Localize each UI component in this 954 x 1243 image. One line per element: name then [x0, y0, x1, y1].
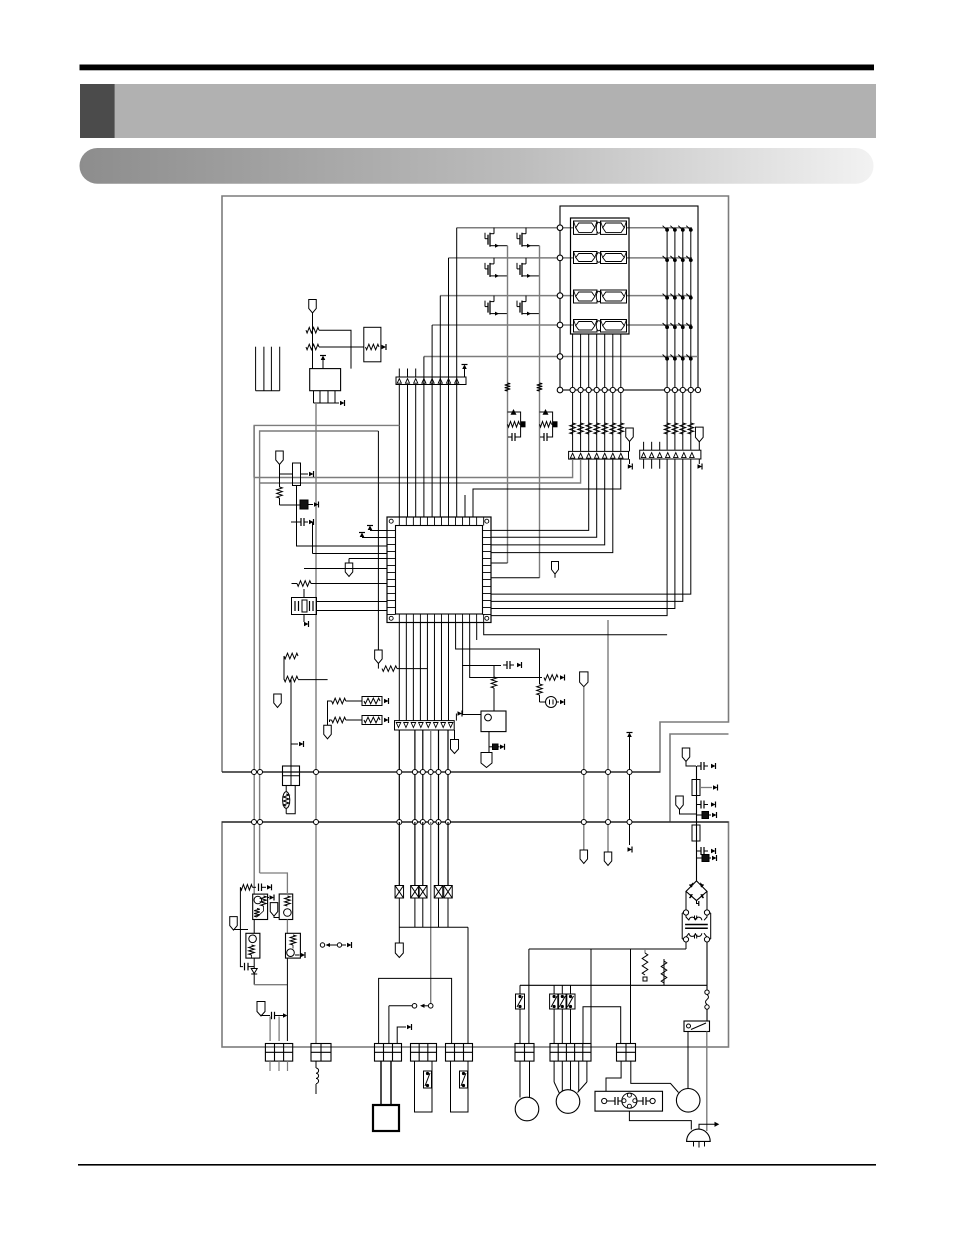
capacitor C-L1 — [252, 886, 256, 888]
label comb — [255, 347, 257, 391]
wire T1 left leg — [685, 942, 687, 949]
wires strip CN-M to MCU top — [398, 385, 400, 518]
page top rule — [80, 65, 875, 71]
resistor R-c1 — [284, 653, 298, 659]
key-matrix terminal circles — [665, 387, 670, 392]
flag node GND-b — [604, 852, 612, 866]
transistor Q4 — [516, 263, 518, 269]
drop bus3 to CN5 — [467, 927, 469, 1043]
terminal rc — [291, 743, 298, 745]
wire strip col2 wrap-left — [260, 459, 581, 483]
loop P2 — [583, 1007, 621, 1044]
IR module top terminal — [322, 360, 324, 369]
switch SW-a — [519, 985, 521, 994]
flag mcu-left — [349, 558, 387, 560]
display common terminal circle row2 — [557, 255, 563, 261]
bus2 junctions — [252, 820, 257, 825]
resistor R-p2 — [692, 825, 700, 841]
strip CN-D flag — [626, 428, 634, 442]
flag and res to strip3 — [377, 431, 379, 650]
terminal A — [268, 897, 269, 899]
staircase verticals display rows to strip — [456, 228, 458, 385]
wires to CN1 — [269, 1017, 271, 1042]
terminal D — [295, 954, 300, 956]
drop line1 to CN8 — [630, 949, 632, 1044]
colon dot row4 — [596, 321, 601, 331]
fuse in CN5 frame — [460, 1071, 468, 1088]
terminal block CN5 — [446, 1044, 473, 1062]
MCU corner index circles — [389, 519, 393, 523]
motor M2 — [556, 1090, 580, 1114]
gray sense wire — [607, 620, 609, 852]
schematic top box (display/control PCB outline) — [222, 196, 729, 772]
drop line1 to CN7 — [590, 949, 592, 1044]
display block outline — [560, 206, 698, 390]
flag L-left — [230, 917, 238, 931]
wire strip col7 to MCU top — [473, 459, 621, 517]
digit common row line 3 — [440, 295, 692, 297]
flag osc — [276, 451, 284, 465]
flag node VDD1 — [554, 574, 556, 578]
capacitor C-p3 — [696, 814, 702, 816]
flag L-mid — [270, 903, 278, 917]
transformer T1 outline — [681, 913, 683, 939]
CN2 coil — [315, 1061, 317, 1068]
MCU U1 inner — [396, 526, 483, 615]
segment series resistors (8) — [570, 423, 576, 434]
strip CN-D lower terminal — [629, 459, 631, 464]
wire compressor to dome — [629, 1111, 691, 1129]
left wrap wire A — [254, 425, 399, 772]
bridge rectifier — [686, 881, 707, 901]
strip CN-K stub wires — [643, 442, 645, 450]
7-seg digit row3 left — [574, 290, 598, 303]
snubber network 1 — [508, 412, 521, 437]
digit common row line 5 — [424, 356, 698, 358]
gray jog to B — [260, 873, 288, 894]
CN6 motor wires — [519, 1061, 521, 1097]
motor M1 — [515, 1097, 539, 1121]
power rail vertical — [696, 766, 698, 881]
crystal circuit wires — [303, 589, 305, 598]
connector pair symbol — [389, 1005, 412, 1007]
page bottom rule — [78, 1164, 876, 1166]
connector strip CN-B pins — [396, 723, 401, 728]
wire ir to thermistor — [319, 346, 364, 348]
display common terminal circle row5 — [557, 354, 563, 360]
driver drain bus left — [507, 246, 509, 563]
wire B to D — [286, 920, 288, 934]
display common terminal circle row4 — [557, 322, 563, 328]
flag p2 — [676, 796, 684, 810]
terminal block CN7 — [550, 1044, 591, 1062]
7-seg digit row1 left — [574, 221, 598, 234]
transformer T1 core — [685, 924, 708, 926]
connector strip CN-D pins — [570, 453, 575, 458]
flag rb — [324, 725, 332, 739]
MCU left stub1 — [370, 530, 387, 532]
diode D-L — [253, 958, 255, 968]
capacitor C-p2 — [697, 804, 701, 806]
colon dot row1 — [596, 222, 601, 233]
header dark accent square — [80, 84, 115, 138]
long wire buzzer line — [315, 403, 317, 1044]
wire relay down-left — [687, 1032, 689, 1089]
display common terminal circle row1 — [557, 225, 563, 231]
wire rc join — [283, 656, 285, 680]
header gray bar — [80, 84, 876, 138]
resistor network lead2 — [330, 720, 332, 722]
fuse F-zn — [285, 786, 287, 792]
wires MCU bottom to strip CN-B — [398, 623, 400, 721]
resistor R-L1 — [240, 885, 252, 891]
wire x254 below wrap — [253, 425, 255, 477]
wire branch left — [240, 887, 243, 966]
transistor Q5 — [484, 301, 486, 307]
transistor Q3 — [484, 263, 486, 269]
resistor R-xtal — [297, 581, 311, 587]
capacitor C-p4 — [697, 850, 701, 852]
wire to CN3 — [388, 1006, 390, 1044]
capacitor C-p1 — [697, 765, 701, 767]
transformer T1 windings — [689, 917, 695, 920]
bus1 junctions — [252, 770, 257, 775]
crystal element — [300, 500, 308, 509]
row line 6 (bottom) — [560, 389, 698, 391]
wire ir branch — [319, 330, 351, 368]
driver drain bus right — [539, 246, 541, 578]
MCU bottom-right wire — [484, 623, 667, 635]
digit common row line 1 — [457, 227, 692, 229]
compressor circuit — [602, 1098, 607, 1103]
thermistor TH1 — [644, 949, 646, 953]
thermistor TH2 — [663, 959, 665, 985]
wire osc2 — [280, 504, 301, 506]
flag rc — [274, 694, 282, 708]
wire jp loop — [286, 786, 295, 814]
CN8 wire right — [631, 1061, 679, 1092]
power line 1 — [529, 948, 686, 950]
plug dome — [687, 1129, 711, 1141]
strip CN-K lower terminal — [698, 459, 700, 464]
resistor network lead1 — [328, 701, 332, 722]
reset IC U2 — [481, 711, 506, 732]
crystal circuit box — [292, 598, 317, 615]
power sub-box outline — [670, 734, 729, 822]
connector strip CN-M pins — [397, 379, 401, 384]
wire T1 right leg — [706, 942, 708, 992]
7-seg digit row4 left — [574, 320, 598, 333]
wire osc — [279, 465, 281, 475]
opto box B — [279, 894, 293, 920]
wires key-matrix to MCU right — [491, 459, 667, 616]
inrush symbol — [320, 943, 324, 947]
resistor R-r1 — [544, 675, 558, 681]
opto box C — [246, 933, 260, 958]
resistor R-ir2 — [306, 344, 319, 350]
capacitor C-p5 — [696, 857, 702, 859]
transistor Q2 — [516, 233, 518, 239]
switches SW-b,c,d — [553, 985, 555, 994]
flag node VDD2 — [580, 672, 588, 687]
terminal block CN6 — [515, 1044, 534, 1062]
power line 2 — [520, 984, 707, 986]
strip CN-M terminal — [464, 369, 466, 377]
loop P1 — [379, 978, 452, 1043]
capacitor C-r1 — [503, 664, 507, 666]
opto box D — [286, 933, 301, 958]
wire rp1 — [700, 787, 712, 789]
connector strip CN-K pins — [641, 453, 646, 458]
terminal block CN4 — [411, 1044, 437, 1062]
flag rst — [487, 752, 490, 754]
display common terminal circle row3 — [557, 293, 563, 299]
CN8 wire left — [606, 1061, 621, 1091]
opto box A — [253, 894, 268, 919]
CN1 stubs — [269, 1061, 271, 1071]
diode D-rst — [488, 732, 490, 753]
key-matrix column wires (4 verticals) — [666, 228, 668, 450]
fuse in CN4 frame — [424, 1071, 432, 1088]
7-seg digit row3 right — [601, 290, 627, 303]
left wrap wire B — [260, 431, 379, 822]
strip CN-M top stubs — [398, 369, 400, 378]
bus line 1 — [222, 771, 660, 773]
schematic lower box (power PCB outline) — [222, 822, 729, 1047]
resistor R-p1 — [692, 780, 700, 796]
MCU pin ticks — [398, 517, 400, 526]
resistor R-c2 — [284, 676, 298, 682]
terminal block CN1 — [265, 1044, 292, 1062]
resistor R-ir1 — [306, 327, 319, 333]
MCU bottom wire to cap — [463, 623, 501, 666]
bus line 2 (lower box top) — [222, 821, 729, 823]
display segment wires (8 verticals) — [572, 334, 574, 451]
colon dot row3 — [596, 291, 601, 302]
wire relay down-right — [706, 1032, 708, 1132]
bridge to transformer wires — [685, 891, 687, 909]
header rounded gradient bar — [80, 148, 874, 184]
MCU left wire y568 — [304, 568, 387, 570]
strip CN-B top terminal — [455, 714, 457, 721]
CN7 motor wires — [553, 1061, 555, 1082]
wires strip CN-B down to bus — [398, 730, 400, 822]
transistor Q6 — [516, 301, 518, 307]
connector strip CN-M body — [396, 377, 466, 385]
strip CN-B flag — [454, 730, 456, 740]
resistor R-b1 — [332, 698, 346, 704]
terminal stub CN3 — [397, 1027, 406, 1044]
drop line1 to CN6 — [528, 949, 530, 1044]
vertical res and photo symbol — [456, 623, 540, 685]
wire main to CN1 — [253, 974, 255, 985]
terminal block CN8 — [617, 1044, 636, 1062]
connector strip CN-D body — [569, 451, 629, 459]
capacitor C-L3 — [244, 963, 246, 971]
IR receiver module — [310, 369, 341, 391]
connector strip CN-K body — [640, 450, 701, 459]
MCU bottom stub10 — [476, 623, 478, 641]
terminal wire x629 — [627, 733, 632, 738]
motor M3 — [676, 1089, 700, 1113]
fuses F1-F5 — [395, 886, 404, 899]
terminal block CN3 — [375, 1044, 402, 1062]
transistor Q1 — [484, 233, 486, 239]
flag remote-in — [309, 300, 317, 314]
jumper block JP1 — [283, 766, 300, 786]
bridge output stub — [697, 901, 699, 904]
thermal fuse TF1 — [705, 990, 709, 994]
relay RY1 — [684, 1021, 710, 1032]
capacitor C-osc — [297, 521, 301, 523]
display common terminal circle row6 — [557, 387, 563, 393]
transformer T1 terminals — [683, 910, 688, 915]
terminal block CN2 — [311, 1044, 331, 1062]
resistor R-b2 — [332, 717, 346, 723]
flag L4 — [257, 1002, 265, 1017]
IR receiver legs — [313, 391, 315, 403]
flag node GND-a — [580, 850, 588, 864]
digit common row line 4 — [432, 324, 692, 326]
MCU bottom wire to res — [470, 623, 542, 678]
thermistor box — [364, 327, 381, 362]
display segment terminal circles — [570, 387, 575, 392]
wire resonator to MCU — [297, 486, 388, 547]
MCU left wire y553 — [313, 553, 388, 555]
display frame — [571, 218, 630, 334]
7-seg digit row4 right — [601, 320, 627, 333]
resistor R-osc — [277, 487, 283, 498]
wire f1 to flag — [398, 898, 400, 943]
wires strip CN-D to MCU right — [491, 459, 589, 530]
7-seg digit row2 left — [574, 252, 598, 264]
wire strip col1 wrap-left — [254, 459, 572, 477]
compressor box — [595, 1091, 663, 1111]
MCU top stub extra — [464, 495, 466, 517]
flag p1 — [682, 748, 690, 762]
connector strip CN-B body — [395, 721, 455, 730]
resonator X1 — [293, 463, 301, 486]
power plug — [373, 1105, 399, 1131]
wire dome arrow — [699, 1124, 715, 1129]
7-seg digit row2 right — [601, 252, 627, 264]
MCU U1 outer — [387, 517, 491, 623]
CN5 frame — [451, 1061, 469, 1112]
snubber network 2 — [540, 412, 553, 437]
strip CN-K flag — [695, 427, 703, 442]
capacitor C-L2 — [261, 1014, 270, 1017]
digit common row line 2 — [449, 257, 693, 259]
colon dot row2 — [596, 253, 601, 263]
CN3 to plug wires — [380, 1061, 382, 1105]
7-seg digit row1 right — [601, 221, 627, 234]
key-matrix resistors (4) — [664, 423, 670, 434]
wires fuses to bus3 — [414, 898, 416, 927]
MCU left stub2 — [362, 537, 387, 539]
wires bus2 down (6) — [398, 822, 400, 886]
key-matrix diodes — [665, 228, 669, 232]
bus line 3 — [399, 926, 468, 928]
CN4 frame — [415, 1061, 433, 1112]
